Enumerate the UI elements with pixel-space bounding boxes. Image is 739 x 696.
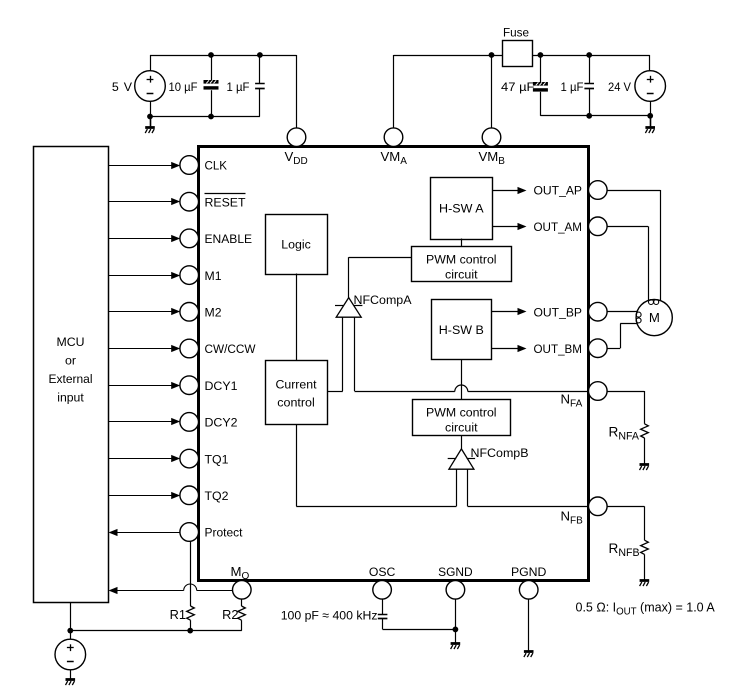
svg-text:OSC: OSC xyxy=(369,565,396,579)
wire MCU to TQ2 with arrow xyxy=(108,495,178,497)
wire rail to V3 xyxy=(70,631,72,640)
pin TQ2 circle xyxy=(180,486,199,505)
svg-text:RESET: RESET xyxy=(205,195,246,209)
junction dot rail V3 xyxy=(67,628,73,634)
svg-text:R2: R2 xyxy=(222,607,238,622)
wire VMA drop xyxy=(393,55,395,128)
svg-text:ENABLE: ENABLE xyxy=(205,232,253,246)
svg-text:DCY2: DCY2 xyxy=(205,416,238,430)
svg-text:5 V: 5 V xyxy=(112,80,133,94)
svg-text:NFCompA: NFCompA xyxy=(354,293,413,307)
resistor RNFB xyxy=(641,540,649,554)
pin VMB circle xyxy=(482,128,501,147)
capacitor C3 wire bottom xyxy=(540,92,542,116)
wire OUT_BM to motor h2 xyxy=(620,323,637,325)
wire VDD drop xyxy=(296,55,298,128)
capacitor C4 1uF wire top xyxy=(589,55,591,84)
wire NFCompA left input down xyxy=(342,317,344,391)
block PWM control circuit A xyxy=(412,247,512,282)
wire Current control to NFCompA minus xyxy=(327,391,343,393)
wire OSC pin down xyxy=(382,599,384,614)
wire OUT_AM to motor v xyxy=(648,226,650,300)
resistor R1 xyxy=(187,606,195,620)
pin OSC circle xyxy=(373,581,392,600)
svg-text:circuit: circuit xyxy=(445,420,478,434)
junction dot rail C4 xyxy=(586,52,592,58)
resistor R2 xyxy=(238,606,246,620)
pin RESET circle xyxy=(180,192,199,211)
svg-text:PGND: PGND xyxy=(511,565,547,579)
wire RNFB to ground xyxy=(644,554,646,580)
svg-text:control: control xyxy=(277,395,315,409)
wire NFB to RNFB h xyxy=(607,506,644,508)
ground 5V supply xyxy=(145,128,155,134)
wire OUT_AP to motor h xyxy=(607,190,660,192)
svg-text:Current: Current xyxy=(276,377,318,391)
svg-text:circuit: circuit xyxy=(445,267,478,281)
pin OUT_AM circle xyxy=(589,217,608,236)
svg-text:10 µF: 10 µF xyxy=(169,80,198,94)
wire 24V rail left xyxy=(394,55,503,57)
IC body outline xyxy=(199,147,589,581)
svg-text:PWM control: PWM control xyxy=(426,405,497,419)
wire Protect to MCU with arrow xyxy=(117,532,180,534)
junction dot bottom rail V2 xyxy=(647,113,653,119)
pin OUT_BM circle xyxy=(589,339,608,358)
svg-text:TQ2: TQ2 xyxy=(205,489,229,503)
pin M1 circle xyxy=(180,266,199,285)
svg-text:CLK: CLK xyxy=(205,159,228,173)
wire MCU to TQ1 with arrow xyxy=(108,458,178,460)
svg-text:OUT_BM: OUT_BM xyxy=(534,342,583,356)
capacitor C1 wire bottom xyxy=(211,90,213,116)
svg-text:TQ1: TQ1 xyxy=(205,452,229,466)
pin NFB circle xyxy=(589,497,608,516)
wire NFCompA to NFA segment 1 xyxy=(355,391,455,393)
svg-text:Protect: Protect xyxy=(205,526,244,540)
pin PGND circle xyxy=(519,581,538,600)
svg-text:MCU: MCU xyxy=(57,335,85,349)
wire H-SW A to OUT_AP arrow xyxy=(492,190,518,192)
pin MO circle xyxy=(233,581,252,600)
capacitor C4 1uF xyxy=(584,84,594,89)
wire H-SW A to OUT_AM arrow xyxy=(492,226,518,228)
wire MCU to CW/CCW with arrow xyxy=(108,348,178,350)
wire V1 to bottom rail xyxy=(150,101,152,116)
wire V3 to ground xyxy=(70,670,72,680)
wire H-SW B to OUT_BP arrow xyxy=(492,311,519,313)
wire SGND pin down xyxy=(455,599,457,644)
junction dot bottom rail C4 xyxy=(586,113,592,119)
wire MCU to DCY1 with arrow xyxy=(108,385,178,387)
wire NFA to RNFA h xyxy=(607,391,644,393)
svg-text:OUT_AP: OUT_AP xyxy=(534,184,583,198)
pin ENABLE circle xyxy=(180,229,199,248)
svg-text:or: or xyxy=(65,354,76,368)
capacitor C2 1uF xyxy=(255,84,265,89)
arrow MO into MCU xyxy=(109,587,118,594)
wire NFCompB to NFB xyxy=(468,506,589,508)
wire C5 to SGND xyxy=(383,629,456,631)
pin CW/CCW circle xyxy=(180,339,199,358)
pin OUT_BP circle xyxy=(589,302,608,321)
junction dot SGND xyxy=(453,627,459,633)
wire RNFA to ground xyxy=(644,438,646,464)
wire V2 to bottom rail xyxy=(650,101,652,116)
pin NFA circle xyxy=(589,382,608,401)
wire OUT_BP to motor xyxy=(607,311,637,313)
svg-text:Logic: Logic xyxy=(281,237,311,251)
wire C5 down xyxy=(382,619,384,630)
wire Logic to Current control xyxy=(296,274,298,361)
pin TQ1 circle xyxy=(180,449,199,468)
wire MCU to DCY2 with arrow xyxy=(108,421,178,423)
wire R1 to rail xyxy=(190,620,192,630)
svg-text:M1: M1 xyxy=(205,269,222,283)
wire MCU bottom down xyxy=(70,602,72,631)
pin Protect circle xyxy=(180,523,199,542)
wire ground stem V1 xyxy=(150,117,152,128)
junction dot rail C1 xyxy=(208,52,214,58)
capacitor C1 10uF wire top xyxy=(211,55,213,80)
svg-text:100 pF ≈ 400 kHz: 100 pF ≈ 400 kHz xyxy=(281,608,378,622)
svg-text:NFCompB: NFCompB xyxy=(471,446,529,460)
MCU / External input block xyxy=(34,147,109,603)
wire NFCompA output up xyxy=(348,257,350,297)
wire NFCompA output to PWM A xyxy=(349,257,412,259)
pin CLK circle xyxy=(180,156,199,175)
svg-text:47 µF: 47 µF xyxy=(501,80,535,94)
wire OUT_AP to motor v xyxy=(660,190,662,301)
ground V3 xyxy=(66,680,76,686)
wire NFB to RNFB v xyxy=(644,506,646,540)
wire 5V top rail xyxy=(150,55,297,57)
wire 24V bottom rail xyxy=(540,115,650,117)
wire H-SW A to PWM A xyxy=(461,239,463,247)
wire MCU to CLK with arrow xyxy=(108,165,178,167)
junction dot rail R1 xyxy=(187,628,193,634)
wire OUT_BM to motor h1 xyxy=(607,348,620,350)
block Logic xyxy=(266,215,328,275)
wire ground stem V2 xyxy=(650,116,652,128)
wire R2 to rail xyxy=(241,620,243,630)
wire 24V source drop xyxy=(649,55,651,71)
pin OUT_AP circle xyxy=(589,181,608,200)
voltage source V3 xyxy=(55,639,86,670)
svg-text:External: External xyxy=(49,372,93,386)
wire MO pin down xyxy=(241,599,243,606)
junction dot rail VMB xyxy=(489,52,495,58)
wire NFCompB left input down xyxy=(456,469,458,506)
capacitor C3 47uF wire top xyxy=(540,55,542,82)
wire H-SW B to OUT_BM arrow xyxy=(492,348,519,350)
wire 24V rail right xyxy=(532,55,650,57)
svg-text:M2: M2 xyxy=(205,306,222,320)
resistor RNFA xyxy=(641,424,649,438)
svg-text:R1: R1 xyxy=(170,607,186,622)
wire H-SW B to PWM B xyxy=(461,360,463,400)
svg-text:H-SW B: H-SW B xyxy=(439,323,484,337)
svg-text:1 µF: 1 µF xyxy=(561,80,584,94)
junction dot bottom rail C1 xyxy=(208,114,214,120)
capacitor C2 wire bottom xyxy=(259,88,261,116)
ground RNFB xyxy=(640,581,650,587)
wire MO to MCU segment 1 xyxy=(197,590,233,592)
wire MCU to M2 with arrow xyxy=(108,311,178,313)
wire bottom rail xyxy=(70,630,242,632)
block Current control xyxy=(266,361,328,425)
wire 5V bottom rail xyxy=(150,116,260,118)
pin VMA circle xyxy=(384,128,403,147)
ground RNFA xyxy=(640,465,650,471)
ground PGND xyxy=(524,652,534,658)
wire NFCompA right input down xyxy=(354,317,356,391)
wire OUT_BM to motor v xyxy=(620,324,622,349)
block H-SW A xyxy=(431,178,493,240)
svg-text:24 V: 24 V xyxy=(608,80,632,94)
fuse F1 xyxy=(503,41,533,67)
wire V1 to rail xyxy=(150,55,152,71)
svg-text:DCY1: DCY1 xyxy=(205,379,238,393)
block H-SW B xyxy=(432,300,492,360)
svg-text:M: M xyxy=(649,310,660,325)
op-amp NFCompA triangle xyxy=(336,298,361,318)
voltage source V1 5V xyxy=(135,71,166,102)
svg-text:input: input xyxy=(57,391,84,405)
wire NFCompA to NFA segment 2 xyxy=(468,391,589,393)
svg-text:SGND: SGND xyxy=(438,565,473,579)
svg-text:PWM control: PWM control xyxy=(426,252,497,266)
wire MCU to M1 with arrow xyxy=(108,275,178,277)
wire MO to MCU segment 2 xyxy=(117,590,184,592)
pin VDD circle xyxy=(287,128,306,147)
pin SGND circle xyxy=(446,581,465,600)
voltage source V2 24V xyxy=(635,71,666,102)
wire Protect pin down xyxy=(190,541,192,606)
op-amp NFCompB triangle xyxy=(449,449,474,469)
capacitor C2 1uF wire top xyxy=(259,55,261,84)
svg-text:Fuse: Fuse xyxy=(503,25,529,39)
motor M xyxy=(636,300,672,336)
wire MCU to RESET with arrow xyxy=(108,201,178,203)
svg-text:CW/CCW: CW/CCW xyxy=(205,342,256,356)
capacitor C4 wire bottom xyxy=(589,88,591,116)
svg-text:OUT_AM: OUT_AM xyxy=(534,220,583,234)
wire VMB drop xyxy=(491,55,493,128)
junction dot bottom rail V1 xyxy=(147,114,153,120)
wire Current control bottom down xyxy=(296,424,298,506)
block PWM control circuit B xyxy=(413,400,511,436)
svg-text:1 µF: 1 µF xyxy=(227,80,250,94)
wire hop MO over Protect xyxy=(184,584,197,590)
wire OUT_AM to motor h xyxy=(607,226,648,228)
junction dot rail C2 xyxy=(257,52,263,58)
svg-text:H-SW A: H-SW A xyxy=(439,201,484,215)
pin M2 circle xyxy=(180,303,199,322)
wire PGND pin down xyxy=(528,599,530,651)
wire NFCompB right input down xyxy=(467,469,469,506)
ground SGND xyxy=(451,644,461,650)
wire PWM B to NFCompB xyxy=(461,436,463,449)
pin DCY2 circle xyxy=(180,413,199,432)
pin DCY1 circle xyxy=(180,376,199,395)
wire Current control to NFCompB xyxy=(296,506,456,508)
capacitor C3 47uF xyxy=(533,82,548,92)
wire NFA to RNFA v xyxy=(644,391,646,424)
wire MCU to ENABLE with arrow xyxy=(108,238,178,240)
ground 24V supply xyxy=(645,128,655,134)
wire hop over H-SW B line xyxy=(455,385,468,392)
svg-text:OUT_BP: OUT_BP xyxy=(534,305,583,319)
capacitor C5 100pF xyxy=(378,615,388,619)
junction dot rail C3 xyxy=(538,52,544,58)
capacitor C1 10uF xyxy=(204,80,219,90)
